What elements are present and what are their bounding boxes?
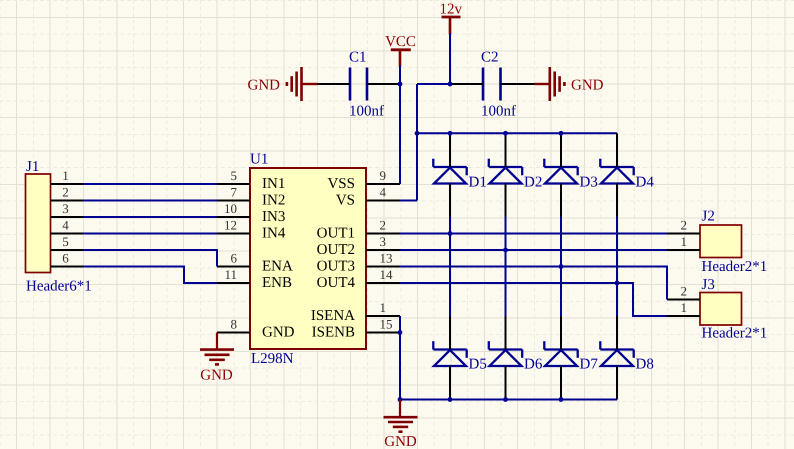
svg-text:100nf: 100nf — [349, 104, 384, 120]
junction OUT3 / column3 — [559, 264, 564, 269]
diode D6 — [489, 341, 543, 372]
diode D2 — [489, 159, 543, 191]
wire OUT1 to J2 pin 2 — [400, 233, 667, 235]
wire corner x=417 from y=84 down to VS row — [416, 84, 418, 201]
wire diode column 2 (D2 anode to D6 cathode) — [505, 217, 507, 317]
svg-text:12: 12 — [224, 218, 237, 233]
diode D1 — [433, 159, 487, 191]
svg-text:1: 1 — [681, 300, 688, 315]
svg-text:6: 6 — [231, 251, 238, 266]
wire OUT4 to J3 pin 1 — [400, 283, 667, 316]
capacitor C2 100nf — [481, 50, 516, 120]
junction 12v rail / D3 at (561,133) — [559, 131, 564, 136]
diode D2 anode pin — [505, 184, 507, 217]
svg-text:2: 2 — [681, 284, 688, 299]
wire VCC vertical x=400 (VCC to VSS pin 9) — [399, 66, 401, 185]
connector J2 Header2*1 — [700, 209, 767, 276]
svg-text:2: 2 — [62, 185, 69, 200]
svg-text:D3: D3 — [580, 175, 598, 191]
svg-text:8: 8 — [231, 317, 238, 332]
U1 pin 7 IN2 — [217, 185, 285, 209]
svg-text:OUT1: OUT1 — [317, 226, 355, 242]
svg-text:15: 15 — [380, 317, 393, 332]
svg-text:J1: J1 — [26, 159, 39, 175]
power port 12v — [440, 2, 463, 35]
J1 pin 3 — [51, 201, 84, 217]
J2 pin 1 — [667, 234, 700, 250]
svg-text:ISENA: ISENA — [311, 308, 355, 324]
svg-text:OUT2: OUT2 — [317, 242, 355, 258]
svg-text:1: 1 — [681, 234, 688, 249]
svg-text:10: 10 — [224, 201, 237, 216]
wire J1.6 to ENB — [83, 267, 217, 284]
wire 12v stem x=450 down to y=84 — [449, 34, 451, 85]
svg-text:D7: D7 — [580, 357, 599, 373]
ground GND (left of C1) — [248, 67, 318, 101]
capacitor C2 pin 2 — [501, 83, 535, 85]
J3 pin 2 — [667, 284, 700, 300]
svg-text:100nf: 100nf — [481, 104, 516, 120]
diode D5 — [433, 341, 487, 372]
svg-text:Header2*1: Header2*1 — [702, 259, 768, 275]
svg-text:Header2*1: Header2*1 — [702, 325, 768, 341]
svg-text:D2: D2 — [524, 175, 542, 191]
ground GND (U1 pin 8) — [200, 333, 234, 384]
svg-text:2: 2 — [380, 218, 387, 233]
junction ground rail / D5 at (450,399.5) — [448, 397, 453, 402]
svg-text:D1: D1 — [469, 175, 487, 191]
diode D8 cathode pin — [616, 317, 618, 350]
U1 pin 14 OUT4 — [317, 267, 400, 291]
junction rail branch at (417,133) — [415, 131, 420, 136]
junction ISENB at (400,332.5) — [398, 330, 403, 335]
svg-text:U1: U1 — [250, 152, 268, 168]
svg-text:6: 6 — [62, 251, 69, 266]
wire J1.4 to IN4 — [83, 233, 217, 235]
svg-text:J3: J3 — [702, 277, 715, 293]
svg-text:4: 4 — [380, 185, 387, 200]
svg-text:ENB: ENB — [262, 275, 292, 291]
wire J1.1 to IN1 — [83, 183, 217, 185]
diode D3 cathode pin — [560, 133, 562, 167]
diode D4 — [600, 159, 654, 191]
svg-text:7: 7 — [231, 185, 238, 200]
U1 pin 2 OUT1 — [317, 218, 400, 242]
junction VCC / C1 at (400,84) — [398, 82, 403, 87]
junction 12v rail / D2 at (505.5,133) — [503, 131, 508, 136]
J1 pin 5 — [51, 234, 84, 250]
svg-text:IN3: IN3 — [262, 209, 285, 225]
diode D8 — [600, 341, 654, 372]
U1 pin 3 OUT2 — [317, 234, 400, 258]
diode D3 — [544, 159, 598, 191]
wire OUT2 to J2 pin 1 — [400, 249, 667, 251]
svg-text:VS: VS — [336, 193, 355, 209]
svg-text:9: 9 — [380, 168, 387, 183]
svg-text:D6: D6 — [524, 357, 543, 373]
svg-text:D4: D4 — [636, 175, 655, 191]
svg-text:VSS: VSS — [327, 176, 355, 192]
wire horizontal y=84 from corner x=417 to 12v node — [417, 83, 450, 85]
svg-text:GND: GND — [384, 434, 417, 449]
svg-text:J2: J2 — [702, 209, 715, 225]
diode D8 anode pin — [616, 366, 618, 400]
U1 pin 10 IN3 — [217, 201, 285, 225]
capacitor C2 pin 1 — [450, 83, 483, 85]
U1 pin 13 OUT3 — [317, 251, 400, 275]
J1 pin 6 — [51, 251, 84, 267]
svg-text:IN1: IN1 — [262, 176, 285, 192]
junction ground rail / ISEN at (400,399.5) — [398, 397, 403, 402]
svg-text:L298N: L298N — [251, 351, 294, 367]
wire J1.5 to ENA — [83, 250, 217, 267]
svg-text:14: 14 — [380, 267, 394, 282]
U1 pin 1 ISENA — [311, 300, 400, 324]
J3 pin 1 — [667, 300, 700, 316]
svg-text:ENA: ENA — [262, 259, 293, 275]
diode D7 cathode pin — [560, 317, 562, 350]
svg-text:C1: C1 — [349, 50, 367, 66]
svg-text:1: 1 — [62, 168, 69, 183]
diode D7 — [544, 341, 598, 372]
wire OUT3 to J3 pin 2 — [400, 267, 667, 300]
diode D2 cathode pin — [505, 133, 507, 167]
diode D5 anode pin — [449, 366, 451, 400]
wire VS pin 4 horizontal — [400, 200, 417, 202]
junction OUT4 / column4 — [615, 281, 620, 286]
svg-text:GND: GND — [571, 78, 604, 94]
U1 pin 9 VSS — [327, 168, 400, 192]
capacitor C1 pin 2 — [367, 83, 400, 85]
svg-text:3: 3 — [380, 234, 387, 249]
junction ground rail / D6 at (505.5,399.5) — [503, 397, 508, 402]
svg-text:3: 3 — [62, 201, 69, 216]
svg-text:1: 1 — [380, 300, 387, 315]
junction OUT1 / column1 — [448, 231, 453, 236]
junction 12v rail / D1 at (450,133) — [448, 131, 453, 136]
svg-text:GND: GND — [200, 368, 233, 384]
J1 pin 2 — [51, 185, 84, 201]
wire diode column 3 (D3 anode to D7 cathode) — [560, 217, 562, 317]
wire diode column 1 (D1 anode to D5 cathode) — [449, 217, 451, 317]
diode D3 anode pin — [560, 184, 562, 217]
diode D7 anode pin — [560, 366, 562, 400]
svg-text:GND: GND — [262, 325, 295, 341]
svg-text:C2: C2 — [481, 50, 499, 66]
svg-text:OUT3: OUT3 — [317, 259, 355, 275]
svg-text:Header6*1: Header6*1 — [26, 279, 92, 295]
J1 pin 1 — [51, 168, 84, 184]
svg-text:13: 13 — [380, 251, 393, 266]
svg-text:4: 4 — [62, 218, 69, 233]
wire J1.2 to IN2 — [83, 200, 217, 202]
U1 pin 4 VS — [336, 185, 400, 209]
diode D1 cathode pin — [449, 133, 451, 167]
svg-text:IN2: IN2 — [262, 193, 285, 209]
U1 pin 12 IN4 — [217, 218, 286, 242]
J2 pin 2 — [667, 218, 700, 234]
op-amp/IC U1 L298N body — [250, 152, 366, 368]
U1 pin 5 IN1 — [217, 168, 285, 192]
ground GND (bottom rail) — [384, 400, 418, 449]
svg-text:ISENB: ISENB — [312, 325, 355, 341]
svg-text:12v: 12v — [440, 2, 463, 18]
svg-text:5: 5 — [62, 234, 69, 249]
wire ISENA/ISENB vertical x=400 — [399, 316, 401, 400]
svg-text:2: 2 — [681, 218, 688, 233]
diode D6 cathode pin — [505, 317, 507, 350]
diode D6 anode pin — [505, 366, 507, 400]
wire 12v rail y=133 to diode column D4 — [417, 132, 617, 134]
power port VCC — [385, 34, 416, 67]
svg-text:GND: GND — [248, 78, 281, 94]
diode D4 anode pin — [616, 184, 618, 217]
wire J1.3 to IN3 — [83, 216, 217, 218]
svg-text:IN4: IN4 — [262, 226, 286, 242]
U1 pin 8 GND — [217, 317, 295, 341]
junction 12v / C2 at (450,84) — [448, 82, 453, 87]
diode D5 cathode pin — [449, 317, 451, 350]
svg-text:11: 11 — [224, 267, 237, 282]
diode D1 anode pin — [449, 184, 451, 217]
svg-text:D8: D8 — [636, 357, 654, 373]
wire bottom ground rail y=399.5 — [400, 399, 617, 401]
wire diode column 4 (D4 anode to D8 cathode) — [616, 217, 618, 317]
diode D4 cathode pin — [616, 133, 618, 167]
svg-text:VCC: VCC — [385, 34, 416, 50]
connector J1 Header6*1 — [26, 159, 92, 295]
junction ground rail / D7 at (561,399.5) — [559, 397, 564, 402]
ground GND (right of C2) — [535, 67, 604, 101]
U1 pin 11 ENB — [217, 267, 292, 291]
U1 pin 6 ENA — [217, 251, 293, 275]
U1 pin 15 ISENB — [312, 317, 400, 341]
J1 pin 4 — [51, 218, 84, 234]
connector J3 Header2*1 — [700, 277, 767, 341]
capacitor C1 pin 1 — [318, 83, 351, 85]
svg-text:OUT4: OUT4 — [317, 275, 356, 291]
svg-text:5: 5 — [231, 168, 238, 183]
junction OUT2 / column2 — [503, 248, 508, 253]
capacitor C1 100nf — [349, 50, 384, 120]
svg-text:D5: D5 — [469, 357, 487, 373]
